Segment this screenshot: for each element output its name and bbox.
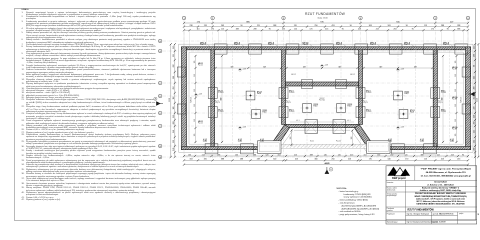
title block row sprawdzajacy <box>387 220 446 224</box>
title block row przedmiot <box>387 207 435 212</box>
svg-text:Projektant:: Projektant: <box>387 212 396 215</box>
svg-text:125: 125 <box>455 74 457 77</box>
svg-text:P=0,9: P=0,9 <box>348 106 352 108</box>
svg-text:P=0,9: P=0,9 <box>410 112 414 114</box>
svg-text:125: 125 <box>455 134 457 137</box>
svg-text:113: 113 <box>424 25 427 27</box>
svg-text:325: 325 <box>173 54 175 57</box>
svg-text:Poz.1.1: Poz.1.1 <box>370 44 376 46</box>
footing outline inner edges <box>189 52 463 144</box>
svg-text:140: 140 <box>324 154 327 156</box>
title block row temat <box>387 192 467 205</box>
svg-text:ST-2,1: ST-2,1 <box>366 91 371 93</box>
pads on center horizontal wall <box>302 80 347 89</box>
labels at interior wall pads <box>218 91 446 114</box>
svg-text:P-24x24: P-24x24 <box>289 111 294 113</box>
title block row inwestor <box>387 181 455 186</box>
svg-text:ŚcW-24: ŚcW-24 <box>190 97 193 103</box>
svg-text:113: 113 <box>197 29 200 31</box>
dimension chain left detailed <box>173 43 176 158</box>
svg-text:WRAZ Z NIEZBĘDNĄ INFRASTRUKTUR: WRAZ Z NIEZBĘDNĄ INFRASTRUKTURĄ TOWARZYS… <box>414 195 467 198</box>
svg-text:250: 250 <box>332 159 335 161</box>
svg-text:349: 349 <box>379 66 382 68</box>
porch interior mini dimension <box>290 129 354 146</box>
svg-text:P-24x24: P-24x24 <box>441 92 446 94</box>
svg-text:325: 325 <box>473 46 475 49</box>
svg-text:363: 363 <box>173 46 175 49</box>
svg-text:ST-2,1: ST-2,1 <box>366 110 371 112</box>
isolated footing pad ST-1.2 <box>300 101 313 114</box>
axis circles top (1-6) <box>182 16 470 20</box>
svg-text:90: 90 <box>447 29 449 31</box>
svg-text:363: 363 <box>369 25 372 27</box>
svg-text:133: 133 <box>204 25 207 27</box>
extension lines bottom <box>184 153 468 156</box>
svg-text:250: 250 <box>473 122 475 125</box>
svg-text:349: 349 <box>303 66 306 68</box>
svg-text:213: 213 <box>173 87 175 90</box>
svg-text:120: 120 <box>405 154 408 156</box>
narrow room vertical dimensions <box>190 55 463 143</box>
svg-text:288: 288 <box>217 154 220 156</box>
svg-text:413: 413 <box>473 97 475 100</box>
wall bottom-center recessed footing strip <box>286 124 358 127</box>
svg-text:A-IIIN [B500SP]; fyk=500MPa, A: A-IIIN [B500SP]; fyk=500MPa, A 0 [B500] <box>342 207 380 210</box>
porch pier pads <box>305 120 345 134</box>
svg-text:Temat rysunku: Temat rysunku <box>387 192 397 195</box>
svg-text:125: 125 <box>194 119 196 122</box>
svg-text:ŁW-1,1: ŁW-1,1 <box>198 63 203 65</box>
svg-text:867-/7, Jabłonna, jednostka ew: 867-/7, Jabłonna, jednostka ewidencyjna … <box>416 200 465 203</box>
svg-text:ŁwBls: ŁwBls <box>450 141 454 143</box>
svg-text:133: 133 <box>188 154 191 156</box>
svg-text:ściany wylewane C25/30 [B30]: ściany wylewane C25/30 [B30] <box>344 197 372 199</box>
isolated footing pad ST-1.2 <box>334 101 347 114</box>
svg-text:388: 388 <box>273 25 276 27</box>
title block firm header <box>421 168 472 178</box>
svg-text:-1,08: -1,08 <box>242 69 246 71</box>
svg-text:-1,08: -1,08 <box>242 127 246 129</box>
svg-text:- beton podkładowy C8/10 [B10]: - beton podkładowy C8/10 [B10] <box>339 199 369 202</box>
porch slab edge strip <box>280 144 378 148</box>
svg-text:Poz.1.1: Poz.1.1 <box>452 99 457 101</box>
wall labels along bottom wall <box>203 139 454 143</box>
svg-text:ST-2.2: ST-2.2 <box>257 91 262 93</box>
svg-text:163: 163 <box>377 154 380 156</box>
svg-text:mgr inż. Grzegorz Gabrysiak: mgr inż. Grzegorz Gabrysiak <box>407 212 429 215</box>
svg-text:1113: 1113 <box>169 98 171 102</box>
svg-text:125: 125 <box>455 119 457 122</box>
dimension chain bottom detailed <box>183 154 469 157</box>
svg-text:PROJEKT BUDOWLANY BUDOWY ŚWIET: PROJEKT BUDOWLANY BUDOWY ŚWIETLICY WIEJS… <box>415 192 466 195</box>
svg-text:170: 170 <box>211 29 214 31</box>
svg-text:140: 140 <box>388 159 391 161</box>
svg-text:125: 125 <box>194 74 196 77</box>
paper size note <box>477 213 480 215</box>
svg-text:Poz.1.1: Poz.1.1 <box>234 44 240 46</box>
svg-text:300: 300 <box>315 159 318 161</box>
svg-text:ŚcW-24: ŚcW-24 <box>460 97 463 103</box>
svg-text:-1,08: -1,08 <box>400 127 404 129</box>
svg-text:90: 90 <box>350 25 352 27</box>
svg-text:90: 90 <box>412 29 414 31</box>
svg-text:90: 90 <box>241 25 243 27</box>
svg-text:P-24x24: P-24x24 <box>366 111 371 113</box>
svg-text:skala 1:100: skala 1:100 <box>317 17 328 19</box>
svg-text:125: 125 <box>194 61 196 64</box>
svg-text:P-24x24: P-24x24 <box>218 111 223 113</box>
svg-text:ŁwBls: ŁwBls <box>203 141 207 143</box>
wall bottom-left footing strip <box>182 147 277 150</box>
title block frame <box>386 166 477 224</box>
pilaster pads on bottom walls <box>205 144 436 154</box>
svg-text:Ł-1,1: Ł-1,1 <box>450 139 454 141</box>
svg-text:tel. kom. 602 015 411, 888 484: tel. kom. 602 015 411, 888 484 484, www.… <box>421 175 471 178</box>
svg-text:04-995 Warszawa, ul. Rychnowsk: 04-995 Warszawa, ul. Rychnowska 119 <box>426 171 467 174</box>
svg-text:413: 413 <box>282 29 285 31</box>
svg-text:125: 125 <box>194 89 196 92</box>
svg-text:300: 300 <box>273 159 276 161</box>
svg-text:250: 250 <box>390 154 393 156</box>
dimension chain top axes <box>183 25 469 28</box>
svg-text:170: 170 <box>405 159 408 161</box>
svg-text:388: 388 <box>421 154 424 156</box>
svg-text:-1,08: -1,08 <box>400 69 404 71</box>
svg-text:170: 170 <box>431 29 434 31</box>
pads on right exterior wall <box>462 67 471 114</box>
svg-text:113: 113 <box>257 25 260 27</box>
svg-text:P-24x24: P-24x24 <box>218 92 223 94</box>
svg-text:413: 413 <box>325 29 328 31</box>
svg-text:Ł-1,1: Ł-1,1 <box>420 139 424 141</box>
svg-text:413: 413 <box>295 159 298 161</box>
svg-text:ŁW-1,5: ŁW-1,5 <box>268 42 274 44</box>
svg-text:Ł-1,1: Ł-1,1 <box>388 139 392 141</box>
svg-text:349: 349 <box>338 66 341 68</box>
svg-text:120: 120 <box>266 154 269 156</box>
notes column text <box>22 9 156 201</box>
svg-text:upr. bud. MAZ/0547/PWOK/16: upr. bud. MAZ/0547/PWOK/16 <box>433 212 454 215</box>
svg-text:325: 325 <box>473 130 475 133</box>
svg-text:133: 133 <box>235 154 238 156</box>
pads on interior walls <box>208 88 440 118</box>
svg-text:Ł-1,1: Ł-1,1 <box>238 139 242 141</box>
svg-text:A-I [St3S]; fyk=240MPa, A 0 [B: A-I [St3S]; fyk=240MPa, A 0 [B500SP] <box>342 204 377 207</box>
svg-text:ST-2.1: ST-2.1 <box>410 110 415 112</box>
svg-text:90: 90 <box>342 29 344 31</box>
svg-text:Ł-1.1: Ł-1.1 <box>347 120 351 122</box>
svg-text:413: 413 <box>376 29 379 31</box>
svg-text:P-24x24: P-24x24 <box>289 92 294 94</box>
svg-text:ST-2,1: ST-2,1 <box>441 110 446 112</box>
svg-text:Poz.1.1: Poz.1.1 <box>336 44 342 46</box>
wall top exterior footing strip <box>182 47 471 50</box>
svg-text:388: 388 <box>310 154 313 156</box>
svg-text:113: 113 <box>221 29 224 31</box>
wall right exterior footing strip <box>466 47 471 150</box>
svg-text:Poz.1.1: Poz.1.1 <box>200 44 206 46</box>
svg-text:213: 213 <box>294 154 297 156</box>
svg-text:ST-2,1: ST-2,1 <box>441 91 446 93</box>
svg-text:P=0,9: P=0,9 <box>263 112 267 114</box>
wall left exterior footing strip <box>182 47 187 150</box>
svg-text:133: 133 <box>173 148 175 151</box>
svg-text:RZUT FUNDAMENTÓW: RZUT FUNDAMENTÓW <box>408 208 435 211</box>
svg-text:413: 413 <box>358 29 361 31</box>
svg-text:413: 413 <box>451 154 454 156</box>
svg-text:125: 125 <box>455 89 457 92</box>
wall labels along top wall <box>200 42 453 46</box>
svg-text:ŁW-1,5: ŁW-1,5 <box>404 42 410 44</box>
svg-text:działka nr ewidencyjny 36/27,: działka nr ewidencyjny 36/27, 36/28, obr… <box>420 189 462 192</box>
svg-text:238: 238 <box>257 159 260 161</box>
material legend text block <box>337 187 380 216</box>
svg-text:ŁW-1,5: ŁW-1,5 <box>370 42 376 44</box>
svg-text:Poz.1.1: Poz.1.1 <box>404 44 410 46</box>
svg-text:SF-2.1: SF-2.1 <box>214 101 219 103</box>
svg-text:388: 388 <box>457 29 460 31</box>
labels near side walls <box>198 63 457 131</box>
svg-text:90: 90 <box>462 154 464 156</box>
svg-text:120: 120 <box>173 107 175 110</box>
svg-text:- stal rozdzielcza St0S-b: - stal rozdzielcza St0S-b <box>339 210 362 213</box>
svg-text:ST-1.2: ST-1.2 <box>348 104 353 106</box>
svg-text:P=0,9: P=0,9 <box>257 93 261 95</box>
drawing title <box>305 11 346 19</box>
wall chamfer right (diagonal footing) <box>355 125 375 150</box>
svg-text:163: 163 <box>190 159 193 161</box>
svg-text:90: 90 <box>473 65 475 67</box>
svg-text:349: 349 <box>414 66 417 68</box>
svg-text:413: 413 <box>364 154 367 156</box>
svg-text:213: 213 <box>202 154 205 156</box>
svg-text:fundamenty C25/30 [B30] W8: fundamenty C25/30 [B30] W8 <box>344 193 372 196</box>
svg-text:ŁW-1,1: ŁW-1,1 <box>198 121 203 123</box>
svg-text:ŁW-1.2: ŁW-1.2 <box>291 74 296 76</box>
svg-text:ST-2,1: ST-2,1 <box>218 91 223 93</box>
section mark left (A) <box>154 97 163 106</box>
svg-text:238: 238 <box>190 25 193 27</box>
svg-text:125: 125 <box>455 61 457 64</box>
svg-text:ST-2,1: ST-2,1 <box>218 110 223 112</box>
svg-text:Poz.1.1: Poz.1.1 <box>198 65 203 67</box>
svg-text:125: 125 <box>455 104 457 107</box>
svg-text:250: 250 <box>315 25 318 27</box>
svg-text:ŁW-1,5: ŁW-1,5 <box>443 42 449 44</box>
svg-text:120: 120 <box>294 29 297 31</box>
svg-text:Poz.1.1: Poz.1.1 <box>443 44 449 46</box>
svg-text:ŁW-1,5: ŁW-1,5 <box>234 42 240 44</box>
svg-text:163: 163 <box>388 25 391 27</box>
pads on left exterior wall <box>177 67 186 114</box>
svg-text:44,85: 44,85 <box>324 162 330 165</box>
corner pads at chamfers <box>258 141 391 154</box>
wall interior axis-3 <box>282 50 286 125</box>
svg-text:288: 288 <box>473 54 475 57</box>
title block logo P&W projekt <box>388 167 411 180</box>
svg-text:120: 120 <box>338 154 341 156</box>
title block row nazwa obiektu <box>387 186 462 192</box>
svg-text:Nazwa i adres: Nazwa i adres <box>387 188 397 190</box>
svg-text:Sprawdzający:: Sprawdzający: <box>387 220 399 223</box>
svg-text:Poz.1.1: Poz.1.1 <box>452 129 457 131</box>
svg-text:213: 213 <box>348 159 351 161</box>
svg-text:ST-1.P: ST-1.P <box>320 98 325 100</box>
svg-text:ŁW-1,1: ŁW-1,1 <box>452 67 457 69</box>
svg-text:263: 263 <box>394 29 397 31</box>
svg-text:388: 388 <box>253 154 256 156</box>
svg-text:880: 880 <box>441 98 443 101</box>
svg-text:Ł-1,1: Ł-1,1 <box>203 139 207 141</box>
svg-text:ŁwBls: ŁwBls <box>238 141 242 143</box>
svg-text:Inwestor:: Inwestor: <box>387 181 394 184</box>
dimension line bottom overall <box>183 162 469 166</box>
svg-text:-1,08: -1,08 <box>324 65 328 67</box>
svg-text:- pręty połączeniowe, listwy,: - pręty połączeniowe, listwy, kotwy fi R… <box>339 213 376 216</box>
svg-text:388: 388 <box>221 159 224 161</box>
vertical axis dashed lines <box>184 21 468 159</box>
svg-text:120: 120 <box>294 25 297 27</box>
dimension line left overall <box>169 43 172 158</box>
svg-text:P=0,9: P=0,9 <box>405 93 409 95</box>
interior wall labels <box>214 101 443 105</box>
svg-text:MATERIAŁ:: MATERIAŁ: <box>337 187 348 190</box>
svg-text:238: 238 <box>473 115 475 118</box>
svg-text:413: 413 <box>441 159 444 161</box>
svg-text:ST-2.2: ST-2.2 <box>405 91 410 93</box>
wall interior axis-2 <box>211 50 215 147</box>
svg-text:413: 413 <box>278 154 281 156</box>
dimension chain top detailed <box>183 29 469 32</box>
axis circles left (letters) <box>158 39 162 159</box>
svg-text:163: 163 <box>290 137 292 140</box>
svg-text:"P&W" PROJEKT mgr inż. arch. P: "P&W" PROJEKT mgr inż. arch. Przemysław … <box>421 168 472 171</box>
svg-text:ST-2.1: ST-2.1 <box>263 110 268 112</box>
svg-text:288: 288 <box>240 159 243 161</box>
svg-text:Poz.1.1: Poz.1.1 <box>198 123 203 125</box>
wall interior axis-4 <box>359 50 363 125</box>
svg-text:Budynek świetlicy dla Gminy "O: Budynek świetlicy dla Gminy "OKRĄG" 2 <box>422 186 459 189</box>
svg-text:388: 388 <box>236 29 239 31</box>
svg-text:413: 413 <box>350 154 353 156</box>
svg-text:KATEGORIA OBIEKTU BUDOWLANEGO:: KATEGORIA OBIEKTU BUDOWLANEGO: XIV - BUD… <box>416 203 465 206</box>
svg-text:113: 113 <box>173 97 175 100</box>
svg-text:413: 413 <box>332 25 335 27</box>
horizontal axis dashed lines <box>163 41 473 157</box>
svg-text:113: 113 <box>473 76 475 79</box>
svg-text:288: 288 <box>457 25 460 27</box>
interior dimension chains in rooms <box>214 55 444 143</box>
svg-text:SF-2.1: SF-2.1 <box>437 101 442 103</box>
section mark right (A) <box>468 92 475 97</box>
svg-text:ST-2,1: ST-2,1 <box>289 91 294 93</box>
svg-text:349: 349 <box>230 66 233 68</box>
svg-text:SF-2.1: SF-2.1 <box>362 101 367 103</box>
isolated footing pad ST-2.1 <box>397 107 410 120</box>
svg-text:ŁW-1,1: ŁW-1,1 <box>452 127 457 129</box>
svg-text:ŁW-1,1: ŁW-1,1 <box>452 97 457 99</box>
svg-text:W-2.1: W-2.1 <box>310 141 314 143</box>
footing outline outer edge <box>179 44 473 152</box>
svg-text:ST-1.2: ST-1.2 <box>314 104 319 106</box>
svg-text:ŁwBls: ŁwBls <box>388 141 392 143</box>
svg-text:Poz.1.1: Poz.1.1 <box>268 44 274 46</box>
svg-text:rysunku:: rysunku: <box>387 210 394 212</box>
wall chamfer left (diagonal footing) <box>270 125 290 150</box>
svg-text:Poz.1.1: Poz.1.1 <box>303 44 309 46</box>
svg-text:125: 125 <box>194 134 196 137</box>
svg-text:Poz.1.1: Poz.1.1 <box>452 69 457 71</box>
svg-text:A3: A3 <box>477 213 480 215</box>
svg-text:238: 238 <box>473 107 475 110</box>
svg-text:300: 300 <box>473 148 475 151</box>
svg-text:1113: 1113 <box>477 98 479 102</box>
dimension chain right detailed <box>473 43 476 158</box>
extension lines top <box>184 21 468 47</box>
svg-text:P-24x24: P-24x24 <box>366 92 371 94</box>
svg-text:170: 170 <box>310 29 313 31</box>
svg-text:Ł-1.1: Ł-1.1 <box>296 120 300 122</box>
misc labels center <box>291 74 355 143</box>
wall interior axis-5 <box>433 50 437 147</box>
svg-text:P=0,9: P=0,9 <box>314 106 318 108</box>
svg-text:113: 113 <box>437 154 440 156</box>
svg-text:170: 170 <box>369 159 372 161</box>
pad labels in rooms <box>257 91 415 113</box>
svg-text:upr. bud. St-590/87: upr. bud. St-590/87 <box>433 220 446 223</box>
pilaster pads on top wall <box>214 44 467 54</box>
svg-text:413: 413 <box>473 140 475 143</box>
svg-text:Jabłonna 24,07 - 070 Przybtori: Jabłonna 24,07 - 070 Przybtoria, działki… <box>416 197 465 200</box>
svg-text:238: 238 <box>173 140 175 143</box>
room level markers <box>195 65 404 130</box>
svg-text:388: 388 <box>473 87 475 90</box>
svg-text:P&W projekt: P&W projekt <box>392 177 406 180</box>
svg-text:ŁwBls: ŁwBls <box>260 141 264 143</box>
svg-text:325: 325 <box>204 159 207 161</box>
svg-text:288: 288 <box>441 25 444 27</box>
svg-text:- beton konstrukcyjny:: - beton konstrukcyjny: <box>339 190 359 193</box>
svg-text:ŁW-1,5: ŁW-1,5 <box>336 42 342 44</box>
svg-text:ul. Szkolna 1, 05 – 340 Kołbie: ul. Szkolna 1, 05 – 340 Kołbiel <box>427 183 454 186</box>
svg-text:349: 349 <box>263 66 266 68</box>
svg-text:- stal zbrojeniowa:: - stal zbrojeniowa: <box>339 202 356 205</box>
svg-text:Ł-1,1: Ł-1,1 <box>260 139 264 141</box>
svg-text:880: 880 <box>220 98 222 101</box>
svg-text:113: 113 <box>424 159 427 161</box>
isolated footing pad ST-2.2 <box>391 89 404 102</box>
svg-text:SF-2.1: SF-2.1 <box>285 101 290 103</box>
svg-text:288: 288 <box>254 29 257 31</box>
title block row projektant <box>387 212 464 224</box>
svg-text:-1,08: -1,08 <box>198 94 202 96</box>
svg-text:ŁwBls: ŁwBls <box>420 141 424 143</box>
svg-text:ŁW-1.2: ŁW-1.2 <box>350 74 355 76</box>
svg-text:Poz.2.2: Poz.2.2 <box>336 141 341 143</box>
svg-text:90: 90 <box>406 25 408 27</box>
section mark bottom (B) <box>325 167 333 174</box>
svg-text:363: 363 <box>173 115 175 118</box>
wall bottom-right footing strip <box>368 147 471 150</box>
svg-text:ŁW-1,5: ŁW-1,5 <box>200 42 206 44</box>
svg-text:140: 140 <box>173 130 175 133</box>
svg-text:125: 125 <box>194 104 196 107</box>
svg-text:288: 288 <box>173 122 175 125</box>
svg-text:P-24x24: P-24x24 <box>441 111 446 113</box>
wall interior center horizontal <box>286 82 359 86</box>
svg-text:238: 238 <box>173 65 175 68</box>
svg-text:300: 300 <box>173 76 175 79</box>
